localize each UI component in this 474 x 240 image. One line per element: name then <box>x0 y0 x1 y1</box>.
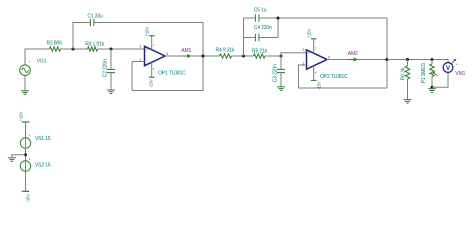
svg-text:+: + <box>146 48 148 52</box>
wire VS2 to -15V rail <box>25 171 27 191</box>
wire R4 to R5 <box>232 55 254 57</box>
wire node B down to C2 <box>110 49 112 69</box>
svg-text:7: 7 <box>153 43 155 47</box>
svg-text:VS1 15: VS1 15 <box>35 136 51 142</box>
wire node D jog to OP2 pin 3 <box>281 53 307 56</box>
resistor R6 (vertical) <box>407 60 409 67</box>
OP1 -15V supply stub <box>151 62 153 77</box>
ground (supply midpoint) <box>8 158 16 162</box>
wire node A up to C1 <box>73 23 90 50</box>
svg-text:P1 1MEG: P1 1MEG <box>421 63 427 84</box>
ground (R6) <box>404 100 412 104</box>
capacitor C5 <box>255 14 259 21</box>
svg-text:R3 1.91k: R3 1.91k <box>85 41 104 47</box>
svg-text:VG1: VG1 <box>37 59 47 65</box>
junction R6 tap <box>406 58 409 61</box>
svg-text:+: + <box>29 157 31 161</box>
capacitor C1 <box>90 19 94 26</box>
svg-text:VM1: VM1 <box>455 71 465 77</box>
svg-text:7: 7 <box>315 46 317 50</box>
svg-text:+: + <box>308 51 310 55</box>
OP1 +15V supply stub <box>151 36 153 50</box>
svg-text:AM1: AM1 <box>181 48 191 54</box>
junction supply midpoint <box>24 153 27 156</box>
wire VG1 to ground <box>24 76 26 91</box>
wire output node vertical <box>386 18 388 88</box>
junction P1 bottom <box>431 86 434 89</box>
wire OP2 inverting input feedback loop <box>299 65 388 88</box>
junction P1 tap <box>431 58 434 61</box>
svg-text:4: 4 <box>315 70 317 74</box>
ground (VG1) <box>21 91 29 95</box>
svg-text:R4 9.31k: R4 9.31k <box>216 48 235 54</box>
wire VS1 to VS2 <box>25 148 27 161</box>
+15V rail symbol <box>22 121 30 123</box>
resistor R5 <box>254 54 266 58</box>
wire R5 to node D <box>265 55 281 57</box>
wire OP1 output to R4 <box>165 55 220 57</box>
resistor R3 <box>88 47 98 51</box>
node A junction <box>72 48 75 51</box>
capacitor C3 <box>277 69 285 72</box>
svg-text:V: V <box>446 66 450 72</box>
ground (C3) <box>277 87 285 91</box>
-15V rail symbol <box>22 190 30 192</box>
svg-text:R5 21k: R5 21k <box>252 48 268 54</box>
wire R2 to R3 <box>61 48 88 50</box>
wire node C up to C5/C4 branch <box>244 18 256 56</box>
output node junction OP2 <box>386 58 389 61</box>
wire output to loads <box>387 60 448 63</box>
node B junction <box>110 48 113 51</box>
svg-text:+: + <box>456 62 458 66</box>
svg-text:4: 4 <box>153 67 155 71</box>
OP2 +15V supply stub <box>313 39 315 53</box>
capacitor C4 <box>255 34 259 41</box>
svg-text:-15V: -15V <box>149 79 154 88</box>
voltage source VS1 <box>20 134 30 149</box>
svg-text:+15V: +15V <box>306 29 311 39</box>
wire C5 to output node (top) <box>259 17 387 19</box>
node C junction <box>242 55 245 58</box>
resistor R2 <box>50 47 61 51</box>
svg-text:+: + <box>28 134 30 138</box>
svg-text:OP2 TL081C: OP2 TL081C <box>320 74 348 80</box>
capacitor C2 <box>107 69 115 72</box>
OP2 -15V supply stub <box>313 66 315 81</box>
svg-text:-15V: -15V <box>26 194 31 203</box>
wire node D down to C3 <box>280 56 282 69</box>
wire C4 branch left lead <box>244 37 256 39</box>
svg-text:+: + <box>29 60 31 64</box>
svg-text:VS2 15: VS2 15 <box>35 162 51 168</box>
wire midpoint to ground <box>12 155 26 158</box>
wire C4 right lead up to C5 wire <box>259 18 278 38</box>
junction C4/C5 <box>277 17 280 20</box>
wire OP1 inverting input feedback loop <box>132 56 203 91</box>
svg-text:C1 33u: C1 33u <box>87 14 103 20</box>
svg-text:R6 3k: R6 3k <box>401 67 407 80</box>
svg-text:+15V: +15V <box>144 27 149 37</box>
voltage source VS2 <box>20 157 30 171</box>
resistor R4 <box>220 54 232 58</box>
wire +15V rail to VS1 <box>25 122 27 138</box>
ground (C2) <box>107 90 115 94</box>
wire C2 to ground <box>110 73 112 90</box>
svg-text:C5 1u: C5 1u <box>254 8 267 14</box>
svg-text:C4 220n: C4 220n <box>254 25 272 31</box>
voltage generator VG1 <box>20 60 31 76</box>
svg-text:+15V: +15V <box>18 112 23 122</box>
potentiometer P1 (vertical) <box>431 60 433 65</box>
node D junction <box>280 55 283 58</box>
wire P1 bottom to VM1 bottom <box>432 72 448 87</box>
wire VG1 up to main line and to R2 <box>25 49 50 65</box>
wire R3 to node B and OP1 pin 3 <box>98 48 145 50</box>
wire C1 to op-amp OP1 output node <box>94 23 203 57</box>
svg-text:-15V: -15V <box>317 81 322 90</box>
svg-text:OP1 TL081C: OP1 TL081C <box>158 70 186 76</box>
wire C3 to ground <box>280 73 282 87</box>
svg-text:C3 220n: C3 220n <box>273 64 279 82</box>
op-amp U1 OP1 triangle <box>145 46 166 65</box>
svg-text:AM2: AM2 <box>348 51 358 57</box>
ground (P1) <box>428 89 436 93</box>
ammeter AM2 arrow <box>349 57 358 61</box>
svg-text:C2 220n: C2 220n <box>103 59 109 77</box>
svg-text:3: 3 <box>140 44 142 48</box>
svg-text:R2 806: R2 806 <box>47 41 63 47</box>
wire OP2 output <box>327 59 387 61</box>
output node junction OP1 <box>202 55 205 58</box>
op-amp U2 OP2 triangle <box>307 50 328 69</box>
voltmeter VM1 <box>443 59 458 73</box>
svg-text:3: 3 <box>303 48 305 52</box>
ammeter AM1 arrow <box>183 54 192 58</box>
